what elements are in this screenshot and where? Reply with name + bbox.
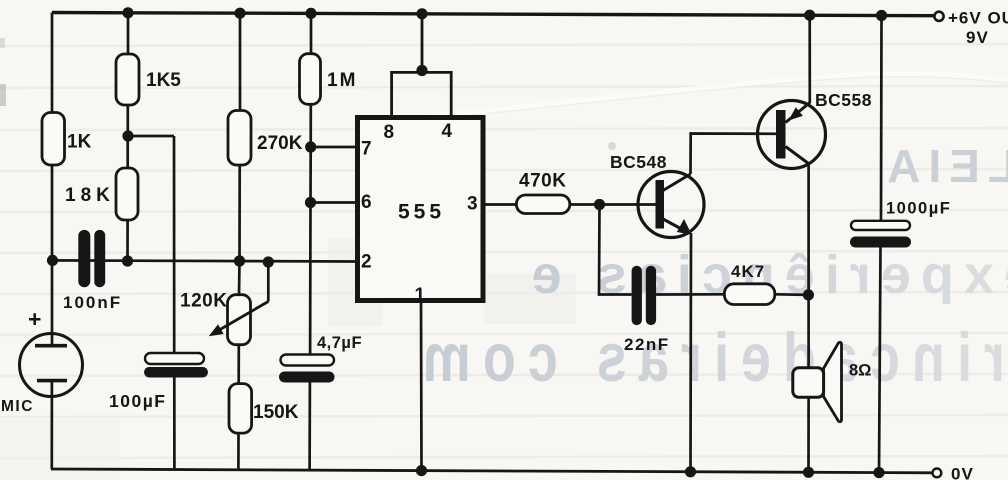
op-amp U1 555 timer body [358, 118, 484, 301]
ghost print-through line experiencias e (mirrored) [522, 245, 1008, 305]
node 4K7 / speaker net [803, 289, 814, 300]
node BC548 emitter ground [685, 466, 696, 477]
resistor 1M [300, 54, 321, 105]
svg-text:8Ω: 8Ω [849, 362, 871, 380]
wire pin1 to ground [420, 303, 423, 471]
resistor 18K [116, 168, 138, 220]
wire BC548 emitter to ground [689, 233, 692, 472]
wire pin2 horizontal net [53, 260, 356, 261]
wire 470K to base [570, 203, 656, 206]
node top rail / 1M [305, 8, 316, 19]
capacitor 22nF [632, 266, 657, 325]
svg-text:100nF: 100nF [63, 293, 122, 312]
node top rail / 270K [234, 8, 245, 19]
svg-text:150K: 150K [253, 402, 299, 423]
wire 22nF to 4K7 [656, 293, 724, 296]
wire pin7 stub [311, 146, 356, 149]
wire pin6 stub [311, 201, 357, 204]
node mic / 100nF [47, 255, 58, 266]
node pins 8-4 strap [416, 65, 427, 76]
wire column B (1K5 / 18K) [126, 13, 129, 261]
svg-text:brincadeiras com: brincadeiras com [411, 320, 1008, 397]
wire column D (1M / 4.7uF) [310, 13, 311, 470]
node top rail / 1K5 [122, 7, 133, 18]
0V terminal [933, 469, 942, 478]
svg-text:8: 8 [384, 122, 395, 143]
resistor 1K [42, 113, 65, 166]
node top rail / 555 supply [416, 8, 427, 19]
microphone MIC [20, 334, 83, 397]
svg-text:22nF: 22nF [624, 335, 670, 354]
wire +V top rail [52, 13, 934, 16]
svg-text:1M: 1M [327, 70, 357, 91]
node 470K / 22nF branch [594, 199, 605, 210]
svg-text:555: 555 [398, 201, 445, 224]
svg-text:6: 6 [361, 192, 372, 213]
svg-text:270K: 270K [257, 133, 303, 154]
capacitor 4.7uF electrolytic [279, 355, 335, 383]
scan washes [0, 38, 616, 480]
wire BC558 emitter to +V [808, 15, 811, 103]
svg-text:1K: 1K [67, 132, 92, 153]
svg-text:9V: 9V [966, 28, 989, 47]
svg-text:LEIA: LEIA [879, 140, 1008, 192]
capacitor 100uF electrolytic [144, 353, 208, 378]
wire BC558 collector down [807, 164, 810, 369]
svg-text:4K7: 4K7 [731, 262, 765, 281]
svg-text:1K5: 1K5 [146, 70, 181, 91]
svg-text:+: + [28, 306, 41, 332]
svg-text:100µF: 100µF [109, 391, 166, 411]
wire 0V bottom rail [51, 469, 933, 473]
node pin7 junction [305, 141, 316, 152]
wire 555 pins 8/4 top strap [392, 14, 452, 115]
+6V terminal [934, 12, 943, 21]
resistor 150K [229, 384, 252, 434]
svg-text:BC558: BC558 [815, 90, 872, 110]
svg-text:2: 2 [361, 252, 372, 273]
wire column C (270K / 120K / 150K) [238, 13, 240, 470]
node speaker ground [803, 467, 814, 478]
svg-text:0V: 0V [951, 465, 974, 480]
resistor 270K [228, 111, 251, 166]
svg-text:3: 3 [467, 194, 478, 215]
wire pot wiper [267, 262, 270, 302]
svg-text:18K: 18K [65, 185, 115, 206]
transistor Q1 BC548 [638, 172, 704, 238]
wire 4K7 to collector net [775, 293, 809, 296]
node 1000uF ground [873, 467, 884, 478]
ghost print-through headline LEIA (mirrored) [879, 140, 1008, 192]
wire pin3 to 470K [485, 203, 516, 206]
wire left column A (mic / 1K) [50, 13, 53, 470]
potentiometer 120K [209, 295, 269, 345]
node top rail / 1000uF [876, 10, 887, 21]
resistor 470K [516, 195, 569, 214]
node 18K bottom [122, 255, 133, 266]
svg-text:120K: 120K [180, 291, 227, 312]
svg-text:1000µF: 1000µF [886, 200, 951, 218]
svg-text:1: 1 [415, 285, 426, 306]
wire 22nF branch [599, 205, 632, 295]
node 1K5/18K junction [122, 130, 133, 141]
ghost print-through line brincadeiras com (mirrored) [411, 320, 1008, 397]
capacitor 100nF [78, 230, 105, 287]
wire BC548 collector to BC558 base [691, 134, 777, 175]
node pin6 junction [305, 197, 316, 208]
speaker 8 ohm [793, 342, 842, 422]
wire speaker to ground [807, 397, 810, 472]
node 270K bottom on pin2 net [234, 255, 245, 266]
transistor Q2 BC558 [758, 101, 826, 169]
wire branch to 100uF column [128, 136, 174, 470]
resistor 4K7 [724, 284, 774, 305]
svg-text:+6V OU: +6V OU [948, 9, 1008, 28]
svg-text:4,7µF: 4,7µF [317, 334, 362, 352]
capacitor 1000uF electrolytic [850, 221, 911, 248]
svg-text:BC548: BC548 [610, 152, 667, 172]
node pin1 ground [416, 465, 427, 476]
wire column 1000uF [879, 16, 882, 473]
svg-text:7: 7 [361, 139, 372, 160]
node wiper on pin2 net [263, 256, 274, 267]
paper crease [430, 74, 1008, 119]
node emitter / top rail [804, 10, 815, 21]
svg-text:MIC: MIC [1, 398, 34, 415]
resistor 1K5 [116, 54, 139, 105]
svg-text:470K: 470K [519, 171, 566, 192]
svg-text:4: 4 [442, 121, 453, 142]
